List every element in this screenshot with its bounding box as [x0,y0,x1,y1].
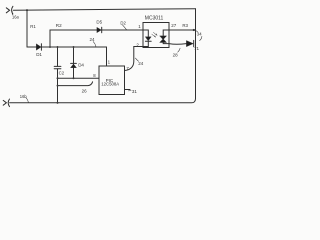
junction net26/C2 [57,85,59,87]
wire pin 1 [106,47,108,66]
svg-text:34: 34 [197,32,203,37]
wire opto output [169,43,186,46]
opto triac [160,30,169,44]
opto LED [143,30,151,47]
svg-text:26: 26 [82,88,88,93]
label 16b [20,94,29,103]
diode D4 [71,63,77,67]
opto light arrows [152,32,157,37]
diode output 71 [187,40,194,46]
capacitor C2 [54,66,61,68]
svg-text:28: 28 [173,53,179,58]
svg-text:12C508A: 12C508A [101,82,119,87]
terminal 16b [3,99,9,107]
label 24 [135,58,143,66]
svg-text:R1: R1 [30,24,36,29]
wire C2 branch [57,47,59,103]
wire D4 branch [73,47,75,78]
wire bottom rail [10,99,196,103]
wire net 26 [58,82,93,86]
wire pin 7 [125,47,144,71]
wire net 27/R3 [169,29,196,31]
label 16a [12,11,20,20]
terminal 16a [6,6,13,14]
wire top rail [13,9,195,11]
svg-text:27: 27 [171,23,177,28]
junction top rail [26,9,28,11]
junction D4 top [73,46,75,48]
junction net27/right rail [193,29,195,31]
label 28 [173,48,181,57]
label D2 [120,20,126,29]
junction C2 top [57,46,59,48]
label 14 [90,37,96,47]
svg-text:D2: D2 [120,20,126,25]
wire middle rail [27,46,107,48]
svg-text:71: 71 [194,46,200,51]
opto U2 MC3011 box [143,23,169,48]
svg-text:24: 24 [138,61,144,66]
wire R2 branch [50,30,143,47]
svg-text:16a: 16a [12,15,20,20]
wire left branch [26,10,28,47]
junction pin8/C2 [57,77,59,79]
svg-text:D5: D5 [96,20,102,25]
svg-text:31: 31 [132,89,138,94]
label 34 [195,30,202,40]
junction C2/bottom rail [56,102,58,104]
label 31 [128,89,137,94]
junction pin8/D4 [73,77,75,79]
svg-text:R3: R3 [182,23,188,28]
svg-text:D1: D1 [36,52,42,57]
diode D1 [36,44,41,50]
diode D5 [97,27,102,33]
wire pin 31 [125,89,131,91]
wire pin8 net [58,77,100,79]
wire right rail [195,9,197,99]
svg-text:24: 24 [90,37,96,42]
svg-text:R2: R2 [56,23,62,28]
svg-text:C2: C2 [59,71,65,76]
junction R2/middle rail [49,46,51,48]
svg-text:MC3011: MC3011 [145,15,164,21]
svg-text:D4: D4 [78,63,84,68]
IC U1 PIC12C508A box [99,66,125,95]
